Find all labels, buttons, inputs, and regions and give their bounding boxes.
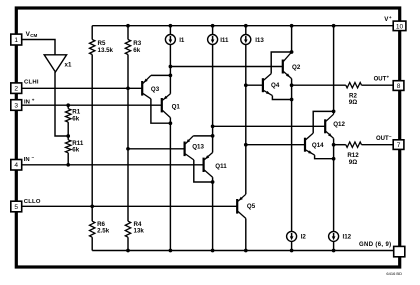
resistor R4 — [125, 221, 144, 237]
svg-text:Q14: Q14 — [312, 142, 324, 149]
transistor Q14 — [305, 133, 324, 155]
svg-text:13k: 13k — [134, 228, 145, 235]
junction V+ rail / I1 column — [169, 24, 173, 28]
svg-text:+: + — [389, 15, 392, 20]
wire Q2 emitter — [291, 79, 293, 86]
wire Q4 collector — [271, 52, 291, 74]
wire VCM from pin 1 — [22, 40, 55, 55]
junction V+ rail / R3 column — [126, 24, 130, 28]
junction Q4 emitter node — [290, 98, 294, 102]
junction ground bus / I2 — [290, 249, 294, 253]
junction ground bus / I12 — [332, 249, 336, 253]
junction OUT- node — [332, 143, 336, 147]
current source I1 — [165, 26, 185, 94]
resistor R12 — [346, 142, 362, 166]
svg-text:2: 2 — [14, 86, 18, 93]
svg-text:2.5k: 2.5k — [97, 228, 110, 235]
pin 5 CLLO — [11, 199, 41, 212]
wire OUT+ column to I2 — [291, 85, 293, 231]
svg-text:8: 8 — [397, 83, 401, 90]
junction V+ rail / Q2/Q4 collectors column — [290, 24, 294, 28]
wire IN+ net — [22, 104, 162, 106]
junction Q12 base node — [211, 124, 215, 128]
current source I2 — [287, 231, 307, 250]
junction Q3/Q1 collectors node — [169, 121, 173, 125]
wire OUT- column to I12 — [333, 145, 335, 232]
buffer U1 x1 — [44, 55, 72, 72]
junction Q4 base node — [244, 83, 248, 87]
wire Q1 collector — [169, 118, 171, 124]
wire Q14 emitter — [315, 155, 334, 159]
junction ground bus / I11 col — [211, 249, 215, 253]
wire IN- net — [22, 164, 204, 166]
svg-text:Q13: Q13 — [192, 143, 204, 150]
wire Q13 collector — [194, 160, 213, 182]
junction R1/R11/buffer node — [66, 134, 70, 138]
svg-text:GND (6, 9): GND (6, 9) — [359, 242, 392, 248]
junction ground bus / I1 col — [169, 249, 173, 253]
svg-text:CLHI: CLHI — [24, 79, 39, 85]
resistor R3 — [125, 40, 141, 55]
svg-text:10: 10 — [396, 23, 404, 30]
junction Q14 base node — [244, 143, 248, 147]
svg-text:Q11: Q11 — [215, 163, 227, 170]
svg-text:x1: x1 — [65, 61, 72, 68]
svg-text:Q12: Q12 — [333, 121, 345, 128]
pin 7 OUT- — [376, 134, 404, 150]
resistor R6 — [90, 221, 110, 237]
svg-text:Q5: Q5 — [247, 203, 256, 210]
transistor Q2 — [283, 52, 301, 79]
svg-text:Q4: Q4 — [271, 82, 280, 89]
wire CLHI net — [22, 87, 142, 89]
pin 4 IN- — [11, 155, 35, 170]
junction Q2 base node — [169, 65, 173, 69]
transistor Q11 — [204, 153, 228, 178]
svg-text:7: 7 — [397, 142, 401, 149]
svg-text:6k: 6k — [133, 47, 140, 54]
wire OUT- net — [334, 144, 394, 146]
wire R3-R4 column — [127, 26, 129, 251]
current source I11 — [208, 26, 229, 153]
junction V+ rail / I13 column — [244, 24, 248, 28]
wire V+ rail — [92, 25, 393, 27]
pin 2 CLHI — [11, 79, 39, 93]
wire OUT+ net — [292, 84, 394, 86]
svg-text:4: 4 — [14, 162, 18, 169]
wire Q2 collector column — [291, 26, 293, 52]
svg-text:I11: I11 — [220, 37, 229, 44]
transistor Q13 — [185, 136, 205, 160]
junction V+ rail / Q12/Q14 collectors column — [332, 24, 336, 28]
transistor Q5 — [237, 194, 256, 218]
svg-text:9Ω: 9Ω — [349, 99, 357, 106]
wire Q3 collector — [151, 99, 171, 123]
svg-text:I1: I1 — [179, 37, 185, 44]
svg-text:6k: 6k — [72, 115, 79, 122]
junction Q14 emitter node — [332, 157, 336, 161]
wire CLLO net — [22, 205, 237, 207]
svg-text:IN: IN — [24, 100, 30, 106]
svg-text:5: 5 — [14, 204, 18, 211]
wire Q2 base net — [170, 66, 282, 68]
pin 8 OUT+ — [374, 74, 404, 90]
wire Q11 collector — [212, 177, 214, 182]
pin 3 IN+ — [11, 98, 35, 111]
pin 10 V+ — [384, 15, 406, 31]
resistor R2 — [346, 83, 362, 107]
junction OUT+ node — [290, 83, 294, 87]
wire R1 column — [67, 105, 69, 165]
svg-text:I13: I13 — [255, 37, 264, 44]
svg-text:6416 BD: 6416 BD — [386, 271, 402, 276]
transistor Q3 — [142, 75, 160, 98]
svg-text:CM: CM — [30, 33, 37, 38]
junction Q2/Q4 collectors node — [290, 50, 294, 54]
svg-text:Q2: Q2 — [292, 64, 301, 71]
wire Q12 collector column — [333, 26, 335, 112]
svg-text:I2: I2 — [301, 234, 307, 241]
svg-text:R3: R3 — [133, 40, 141, 47]
transistor Q12 — [325, 111, 345, 138]
wire Q13 emitter stub — [193, 135, 212, 137]
pin 1 VCM — [11, 31, 38, 45]
wire Q3 emitter stub — [151, 74, 171, 76]
svg-text:+: + — [32, 98, 35, 103]
svg-text:R5: R5 — [98, 40, 106, 47]
wire Q14 base net — [246, 144, 305, 146]
svg-text:OUT: OUT — [374, 77, 387, 83]
junction CLLO / R5-R6 column — [90, 204, 94, 208]
resistor R11 — [66, 140, 84, 154]
transistor Q1 — [162, 94, 181, 118]
svg-text:+: + — [387, 74, 390, 79]
current source I13 — [241, 26, 265, 195]
svg-text:I12: I12 — [343, 234, 352, 241]
junction V+ rail / I11 column — [211, 24, 215, 28]
junction ground bus / Q5 — [244, 249, 248, 253]
junction Q13/Q11 collectors node — [211, 180, 215, 184]
junction ground bus / R4 — [126, 249, 130, 253]
svg-text:OUT: OUT — [376, 136, 389, 142]
wire I1 column to ground bus — [169, 123, 171, 250]
svg-text:Q1: Q1 — [172, 103, 181, 110]
pin GND (6, 9) — [359, 242, 405, 257]
svg-text:CLLO: CLLO — [24, 199, 41, 205]
wire Q13 base net — [128, 148, 185, 150]
junction IN+ / R1 top — [66, 103, 70, 107]
drawing id 6416 BD — [386, 271, 402, 276]
wire ground bus — [92, 250, 394, 252]
svg-text:−: − — [389, 134, 392, 139]
resistor R1 — [66, 109, 81, 123]
junction Q13 base / R3 column — [126, 147, 130, 151]
current source I12 — [329, 231, 352, 250]
wire Q14 collector — [313, 111, 333, 133]
svg-text:9Ω: 9Ω — [349, 159, 357, 166]
wire Q4 emitter — [272, 96, 291, 100]
svg-text:1: 1 — [14, 37, 18, 44]
svg-text:Q3: Q3 — [151, 86, 160, 93]
wire buffer output to R1/R11 node — [55, 72, 68, 136]
svg-text:13.5k: 13.5k — [98, 47, 114, 54]
wire Q12 base net — [213, 125, 326, 127]
resistor R5 — [90, 40, 114, 55]
wire Q12 emitter — [333, 138, 335, 144]
svg-text:R12: R12 — [347, 152, 359, 159]
svg-text:IN: IN — [24, 157, 30, 163]
junction Q13/Q11 emitters node — [211, 134, 215, 138]
svg-text:−: − — [32, 155, 35, 160]
junction CLHI / R3 column — [126, 86, 130, 90]
transistor Q4 — [263, 74, 280, 96]
svg-text:6k: 6k — [72, 147, 79, 154]
wire Q4 base net — [246, 84, 263, 86]
wire Q5 collector to ground bus — [245, 218, 247, 250]
wire I11 column to ground bus — [212, 182, 214, 251]
junction Q3/Q1 emitters node — [169, 74, 173, 78]
junction IN- / R11 bottom — [66, 163, 70, 167]
wire R5-R6 column — [91, 26, 93, 251]
svg-text:3: 3 — [14, 102, 18, 109]
junction Q12/Q14 collectors node — [332, 110, 336, 114]
